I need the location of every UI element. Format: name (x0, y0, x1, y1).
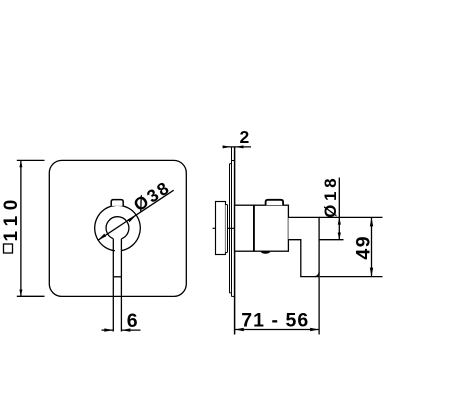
dimension text Ø38 (130, 177, 174, 215)
arrow up at arm top (49) (370, 217, 373, 226)
dimension Ø38 leader line (98, 190, 174, 240)
arrow pointing right at plate back (223, 145, 232, 148)
arrow down at leg bottom (49) (370, 268, 373, 277)
temperature button (front view tab) (111, 200, 123, 206)
extension line at leg bottom (for 49) (320, 276, 383, 278)
lever joint tick (113, 276, 121, 278)
dimension square 110: top extension line (17, 159, 45, 161)
arrow pointing left at lever right edge (121, 328, 130, 331)
body flange strip (226, 205, 228, 253)
dimension text 49 (352, 235, 374, 260)
handle body block (254, 205, 288, 251)
hub/body joint line (thick) (253, 205, 255, 251)
svg-text:6: 6 (127, 310, 138, 332)
sleeve top cap (230, 163, 232, 165)
svg-text:110: 110 (1, 194, 22, 241)
center line through valve axis (213, 227, 241, 229)
arrow up at plate top (19, 160, 22, 167)
plate back face line (also extension for 2) (231, 147, 233, 297)
svg-text:2: 2 (240, 127, 250, 147)
handle hub cylinder (235, 205, 255, 251)
plate bottom edge (232, 295, 235, 297)
dimension text square110 (1, 194, 22, 253)
lever arm and down leg (L shape) (288, 217, 319, 276)
escutcheon outer circle (broken where lever crosses) (95, 205, 141, 250)
dimension 6: right dimension line segment (121, 329, 140, 331)
arrow pointing right at lever left edge (104, 328, 113, 331)
dimension square 110: bottom extension line (17, 295, 45, 297)
arrow upper-right on circle (128, 215, 136, 222)
sleeve bottom cap (230, 292, 232, 294)
arrow right at leg edge (310, 328, 319, 331)
plate front face line (also extension for 2 and 71-56) (234, 147, 236, 335)
in-wall valve body (216, 202, 226, 255)
fillet arc at lever tip corner (315, 272, 319, 276)
handle hub keyhole (inner circle merging into lever) (106, 217, 129, 239)
svg-text:Ø18: Ø18 (321, 175, 340, 218)
extension line: leg right edge down to 71-56 dimension (318, 277, 320, 335)
dimension square 110: vertical dimension line (20, 160, 22, 296)
arrow pointing left at plate front (235, 145, 244, 148)
set screw bump under body (261, 251, 270, 254)
arrow lower-left on circle (98, 234, 106, 241)
dimension Ø18: vertical dimension line (338, 178, 340, 240)
dimension 49: vertical dimension line (371, 217, 373, 276)
arrow down at plate bottom (19, 290, 22, 297)
wall plate (rounded square) (49, 160, 186, 296)
lever bar right edge / extension line (120, 239, 122, 332)
temperature button (side view) (266, 200, 284, 205)
extension line at arm top (for Ø18 and 49) (319, 216, 382, 218)
wall sleeve back line (229, 164, 231, 293)
extension line at arm bottom (for Ø18) (319, 239, 343, 241)
svg-text:49: 49 (352, 235, 374, 260)
lever bar left edge / extension line (112, 239, 114, 332)
arrow down at arm bottom (338, 233, 341, 240)
dimension 2: dimension line (223, 146, 251, 148)
dimension text Ø18 (321, 175, 340, 218)
svg-text:71 - 56: 71 - 56 (241, 310, 309, 332)
plate top edge (232, 160, 235, 162)
arrow up at arm top (338, 217, 341, 224)
arrow left at plate front (235, 328, 244, 331)
dimension 71-56: horizontal dimension line (235, 329, 320, 331)
dimension 6: left dimension line segment (102, 329, 114, 331)
